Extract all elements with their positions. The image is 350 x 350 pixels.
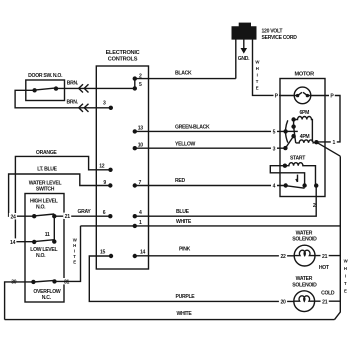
wire pink 14 to hot solenoid <box>135 255 294 257</box>
svg-text:SOLENOID: SOLENOID <box>292 282 317 288</box>
svg-text:T: T <box>73 254 76 259</box>
svg-text:WATER: WATER <box>296 276 313 282</box>
svg-text:N.O.: N.O. <box>36 253 46 259</box>
pin 3 <box>103 101 113 110</box>
wire cold 21 to white bus <box>315 300 341 302</box>
svg-text:20: 20 <box>280 299 286 305</box>
svg-text:14: 14 <box>10 240 16 246</box>
svg-text:11: 11 <box>45 232 50 238</box>
svg-text:BLACK: BLACK <box>175 71 192 77</box>
svg-text:T: T <box>256 79 259 84</box>
wire white prong down <box>253 39 281 95</box>
wire black: cord to pin 2 <box>135 78 236 80</box>
svg-text:3: 3 <box>103 101 106 107</box>
svg-text:E: E <box>73 260 76 265</box>
pin 2 <box>133 74 142 81</box>
pin 6 <box>103 210 113 219</box>
svg-text:1: 1 <box>333 140 336 146</box>
120 volt service cord label <box>262 29 298 42</box>
label 30 <box>10 278 18 285</box>
wire link high-low common <box>53 216 55 241</box>
svg-text:GRAY: GRAY <box>77 209 91 215</box>
svg-text:START: START <box>290 155 306 161</box>
wire purple 15 to cold solenoid <box>89 256 293 301</box>
label motor pin 2 <box>311 201 316 209</box>
svg-text:N.C.: N.C. <box>42 295 52 301</box>
pin 5 <box>133 82 142 91</box>
svg-text:H: H <box>344 266 347 271</box>
svg-text:BRN.: BRN. <box>67 99 79 105</box>
high level contacts <box>32 214 57 218</box>
label 21 hot <box>321 252 329 260</box>
svg-text:SOLENOID: SOLENOID <box>292 237 317 243</box>
winding 4PM <box>296 134 316 143</box>
motor M1 <box>280 72 325 197</box>
cold water solenoid L2 <box>292 276 317 312</box>
wire green-black 13 to motor 5 <box>135 130 286 132</box>
svg-text:E: E <box>344 289 347 294</box>
svg-text:MOTOR: MOTOR <box>294 72 314 78</box>
gnd arrow <box>238 40 250 63</box>
overflow contacts <box>31 279 61 301</box>
label P left <box>274 92 280 100</box>
pin 12 <box>99 164 112 172</box>
node motor internal junction 1 <box>314 140 318 144</box>
door switch S1 <box>26 73 65 101</box>
electronic controls box U1 <box>96 50 148 269</box>
svg-text:ORANGE: ORANGE <box>36 150 57 156</box>
wire hot 21 to white bus <box>315 255 340 257</box>
svg-text:I: I <box>74 249 75 254</box>
svg-text:21: 21 <box>65 214 71 220</box>
pin 9 <box>103 180 112 188</box>
wire junction diagonal to white bus <box>316 142 340 156</box>
svg-text:H: H <box>256 66 259 71</box>
svg-text:YELLOW: YELLOW <box>175 141 195 147</box>
svg-text:21: 21 <box>322 254 328 260</box>
svg-text:WHITE: WHITE <box>176 219 192 225</box>
wire white 31 up to pin1 line <box>55 226 81 282</box>
start winding <box>283 155 316 185</box>
svg-text:12: 12 <box>99 164 105 170</box>
wire white bottom bus <box>5 319 335 321</box>
wire brn door to pin 3 <box>15 90 111 108</box>
label 21 cold <box>321 298 329 306</box>
svg-text:PINK: PINK <box>179 247 191 253</box>
label 22 <box>279 252 287 260</box>
svg-text:GND.: GND. <box>238 56 250 62</box>
motor pin 5 <box>271 128 288 136</box>
svg-text:T: T <box>344 281 347 286</box>
wire black prong down <box>235 39 237 79</box>
wire start loop to switch contact <box>270 166 304 186</box>
speed selector contacts <box>285 117 297 148</box>
svg-text:COLD: COLD <box>321 291 335 297</box>
wire 30 to white bottom bus <box>5 282 34 320</box>
wire protector left stub <box>280 95 298 97</box>
svg-text:RED: RED <box>175 178 185 184</box>
wire white bus right vertical <box>335 156 341 319</box>
svg-text:SWITCH: SWITCH <box>36 187 55 193</box>
svg-text:2: 2 <box>313 203 316 209</box>
svg-text:5: 5 <box>273 130 276 136</box>
svg-text:E: E <box>256 86 259 91</box>
svg-text:SERVICE CORD: SERVICE CORD <box>262 35 298 41</box>
wire yellow 10 to motor 3 <box>135 147 286 149</box>
svg-text:H: H <box>73 243 76 248</box>
svg-text:WATER LEVEL: WATER LEVEL <box>29 180 62 186</box>
label motor 1 <box>331 138 337 146</box>
svg-text:4PM: 4PM <box>300 134 310 140</box>
svg-text:WATER: WATER <box>296 230 313 236</box>
service cord plug <box>232 23 257 40</box>
label 24 <box>9 213 17 220</box>
label 14 water level <box>8 238 16 245</box>
wire blue 4 to motor 2 <box>135 186 316 217</box>
svg-text:24: 24 <box>10 214 16 220</box>
svg-text:4: 4 <box>139 210 142 216</box>
svg-text:I: I <box>345 274 346 279</box>
motor pin 4 <box>271 182 277 190</box>
svg-text:LT. BLUE: LT. BLUE <box>37 166 57 172</box>
motor protector <box>294 87 311 104</box>
pin 10 <box>133 142 144 150</box>
svg-text:ELECTRONIC: ELECTRONIC <box>106 50 140 56</box>
wire gray water level 21 to pin 6 <box>54 215 110 217</box>
node white vertical label left <box>73 238 78 265</box>
connector arrows brn 2 <box>79 104 89 112</box>
svg-text:2: 2 <box>139 74 142 80</box>
svg-text:BRN.: BRN. <box>67 80 79 86</box>
pin 13 <box>133 126 144 134</box>
svg-text:PURPLE: PURPLE <box>176 294 196 300</box>
wire pin2-pin5 link <box>134 79 136 89</box>
svg-text:4: 4 <box>273 184 276 190</box>
svg-text:N.O.: N.O. <box>36 205 46 211</box>
svg-text:120 VOLT: 120 VOLT <box>262 29 284 35</box>
motor pin 3 <box>271 145 288 153</box>
pin 15 <box>100 250 113 259</box>
svg-text:HOT: HOT <box>319 265 330 271</box>
low level contacts <box>30 239 57 259</box>
svg-text:DOOR SW. N.O.: DOOR SW. N.O. <box>28 73 63 79</box>
connector arrows brn 1 <box>79 84 89 92</box>
pin 7 <box>133 180 142 188</box>
pin 4 <box>133 210 142 219</box>
wire red 7 to motor 4 <box>135 185 286 187</box>
wire lt blue 9 to water level 24 <box>9 174 111 216</box>
pin 1 <box>133 220 142 228</box>
node white vertical label right <box>344 259 349 294</box>
label 20 <box>279 298 287 306</box>
svg-text:15: 15 <box>100 250 106 256</box>
pin 14 <box>133 250 146 259</box>
svg-text:BLUE: BLUE <box>176 209 190 215</box>
label 21 water level <box>63 213 71 220</box>
svg-text:13: 13 <box>138 126 144 132</box>
svg-text:WHITE: WHITE <box>177 311 193 317</box>
svg-text:14: 14 <box>140 250 146 256</box>
svg-text:22: 22 <box>280 254 286 260</box>
winding 6PM <box>294 110 313 142</box>
label P right <box>329 92 335 100</box>
wire brn door to pin 5 <box>56 87 135 89</box>
svg-text:10: 10 <box>138 142 144 148</box>
svg-text:CONTROLS: CONTROLS <box>108 57 138 63</box>
svg-text:6: 6 <box>103 210 106 216</box>
svg-text:3: 3 <box>273 146 276 152</box>
svg-text:I: I <box>257 73 258 78</box>
wire orange 12 to water level 14 <box>15 156 110 241</box>
svg-text:6PM: 6PM <box>300 110 310 116</box>
svg-text:5: 5 <box>139 82 142 88</box>
wire white pin1 to right bus <box>81 225 341 227</box>
wire protector right to bus <box>307 96 340 142</box>
hot water solenoid L1 <box>292 230 317 266</box>
start switch <box>284 175 319 189</box>
water level switch S2 <box>25 180 64 302</box>
node white vertical label <box>255 60 260 91</box>
svg-text:21: 21 <box>322 299 328 305</box>
svg-text:31: 31 <box>64 279 70 285</box>
svg-text:GREEN-BLACK: GREEN-BLACK <box>175 125 210 131</box>
label 31 <box>62 278 70 285</box>
